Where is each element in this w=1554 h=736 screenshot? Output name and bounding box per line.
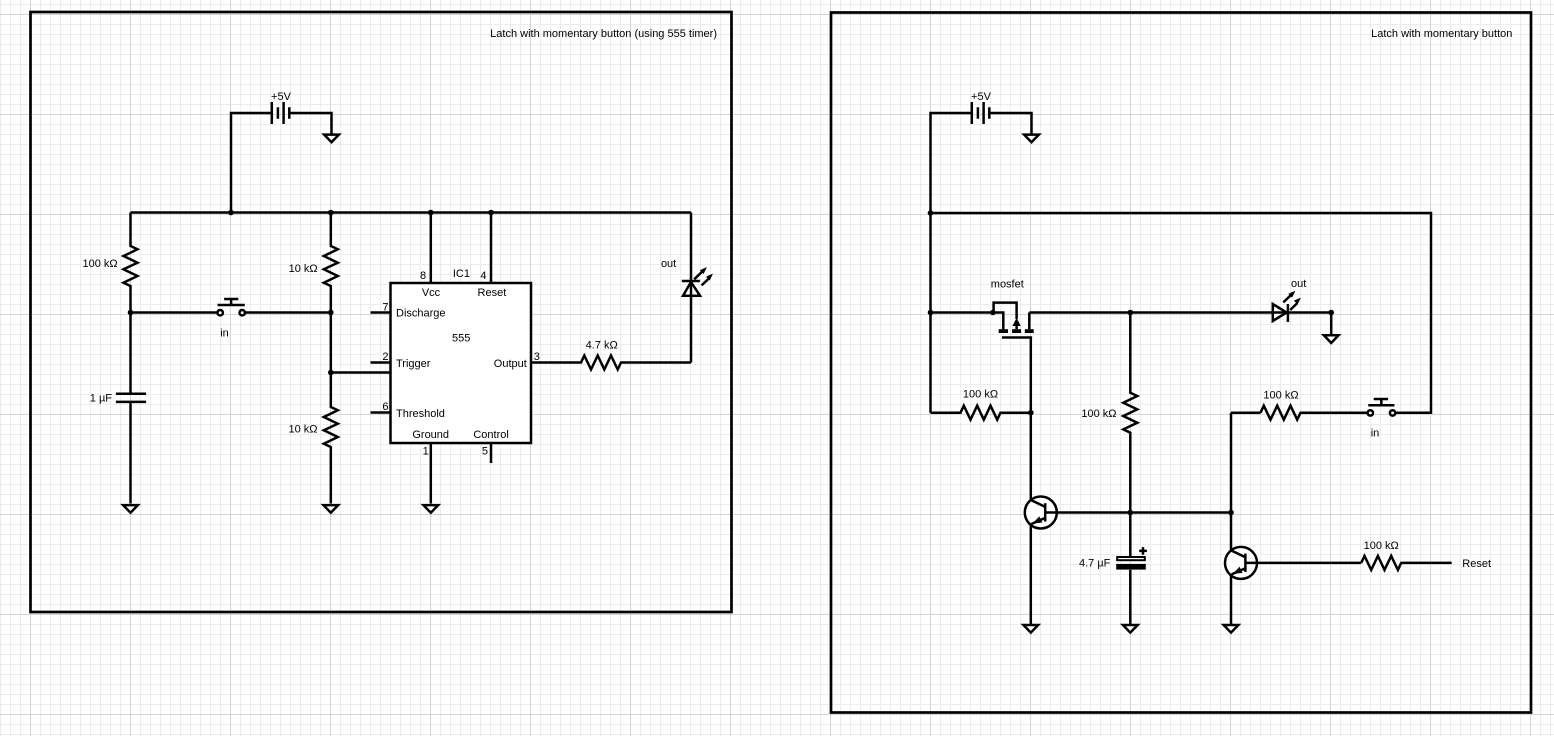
node mosfet gate hook — [990, 310, 996, 316]
svg-text:+5V: +5V — [971, 91, 992, 103]
wire Q1 base row — [1045, 511, 1231, 514]
wire button right — [245, 311, 330, 314]
svg-text:mosfet: mosfet — [991, 279, 1024, 291]
svg-text:Control: Control — [473, 429, 508, 441]
svg-text:Latch with momentary button: Latch with momentary button — [1371, 28, 1512, 40]
pin 4 wire (Reset) — [480, 213, 491, 284]
wire mosfet drain to LED row — [1029, 311, 1273, 314]
IC IC1 (555 timer) — [391, 268, 532, 443]
battery V2 +5V — [971, 91, 992, 124]
LED D1 "out" — [661, 213, 713, 363]
svg-text:in: in — [1371, 427, 1380, 439]
node R1-button — [128, 310, 134, 316]
node rail-pin8 — [428, 210, 434, 216]
ground (C1) — [123, 505, 138, 513]
resistor R8 100 kOhm (reset) — [1361, 540, 1452, 570]
resistor R2 10 kOhm — [289, 213, 338, 313]
svg-text:4.7 µF: 4.7 µF — [1079, 557, 1111, 569]
svg-text:10 kΩ: 10 kΩ — [288, 424, 317, 436]
node rail-pin4 — [488, 210, 494, 216]
pin 7 stub (Discharge) — [371, 301, 391, 313]
wire battery left — [231, 113, 272, 213]
svg-text:100 kΩ: 100 kΩ — [1364, 540, 1399, 552]
node base row - C2 — [1128, 510, 1134, 516]
net label Reset — [1462, 558, 1491, 570]
node button-R2 — [328, 310, 334, 316]
svg-text:4: 4 — [480, 270, 486, 282]
pin 3 stub (Output) — [534, 351, 540, 363]
svg-text:Vcc: Vcc — [422, 287, 441, 299]
pin 6 stub (Threshold) — [371, 401, 391, 413]
svg-text:+5V: +5V — [271, 91, 292, 103]
svg-text:8: 8 — [420, 270, 426, 282]
ground (LED D2) — [1324, 335, 1339, 343]
node bus-mosfet row — [928, 310, 934, 316]
svg-text:7: 7 — [382, 301, 388, 313]
transistor Q2 — [1225, 547, 1257, 579]
node rail-battery V2 — [928, 210, 934, 216]
battery V1 +5V — [271, 91, 292, 124]
svg-text:Trigger: Trigger — [396, 358, 431, 370]
node trigger — [328, 370, 334, 376]
pushbutton S1 "in" — [218, 299, 245, 339]
LED D2 "out" — [1273, 278, 1331, 334]
right title — [1371, 28, 1512, 40]
wire R2 to trigger node — [330, 313, 333, 373]
svg-text:1: 1 — [423, 446, 429, 458]
svg-text:5: 5 — [482, 446, 488, 458]
wire trigger to IC — [331, 371, 391, 374]
svg-text:Discharge: Discharge — [396, 308, 446, 320]
svg-text:100 kΩ: 100 kΩ — [963, 389, 998, 401]
ground (battery V2) — [1024, 135, 1039, 143]
svg-text:Reset: Reset — [478, 287, 507, 299]
node rail-R2 — [328, 210, 334, 216]
wire Q2 base row — [1245, 562, 1361, 565]
svg-text:10 kΩ: 10 kΩ — [289, 263, 318, 275]
svg-text:out: out — [661, 258, 676, 270]
resistor R1 100 kOhm — [82, 213, 137, 313]
svg-text:in: in — [220, 327, 229, 339]
ground (Q2) — [1224, 625, 1239, 633]
wire battery V2 right — [989, 113, 1031, 134]
wire left bus down — [929, 213, 932, 413]
resistor R4 4.7 kOhm — [531, 340, 691, 370]
svg-text:Latch with momentary button (u: Latch with momentary button (using 555 t… — [490, 28, 717, 40]
wire to mosfet source — [931, 313, 1004, 330]
svg-text:Output: Output — [494, 358, 527, 370]
capacitor C1 1 uF — [90, 313, 146, 504]
wire top rail — [131, 211, 692, 214]
pin 8 wire (Vcc) — [420, 213, 431, 284]
transistor Q1 — [1025, 497, 1057, 529]
ground (IC1 pin1) — [423, 505, 438, 513]
resistor R5 100 kOhm — [931, 389, 1031, 420]
pin 2 stub (Trigger) — [371, 351, 391, 363]
pin 1 wire (Ground) — [423, 443, 431, 504]
node LED row - R6 — [1128, 310, 1134, 316]
resistor R6 100 kOhm (middle) — [1081, 313, 1137, 513]
svg-text:2: 2 — [382, 351, 388, 363]
ground (R3) — [323, 505, 338, 513]
wire battery V2 left — [931, 113, 972, 213]
svg-text:100 kΩ: 100 kΩ — [1081, 408, 1116, 420]
svg-text:100 kΩ: 100 kΩ — [1263, 389, 1298, 401]
resistor R3 10 kOhm — [288, 373, 337, 504]
resistor R7 100 kOhm (in) — [1261, 389, 1368, 419]
pin 5 stub (Control) — [482, 443, 491, 463]
node gate-R5 — [1028, 410, 1034, 416]
wire in-row left corner — [1231, 411, 1261, 414]
svg-text:4.7 kΩ: 4.7 kΩ — [586, 340, 618, 352]
svg-text:Threshold: Threshold — [396, 408, 445, 420]
ground (battery V1) — [324, 135, 339, 143]
node Q1 base - Q2 collector — [1228, 510, 1234, 516]
svg-text:Ground: Ground — [412, 429, 449, 441]
ground (Q1) — [1023, 625, 1038, 633]
wire right rail — [931, 213, 1432, 413]
wire battery right — [289, 113, 331, 134]
svg-text:Reset: Reset — [1462, 558, 1491, 570]
svg-text:IC1: IC1 — [453, 268, 470, 280]
svg-text:555: 555 — [452, 333, 470, 345]
right schematic frame — [831, 13, 1531, 713]
svg-text:out: out — [1291, 278, 1306, 290]
left schematic frame — [31, 12, 732, 612]
pushbutton S2 "in" — [1368, 399, 1396, 439]
node LED-ground — [1328, 310, 1334, 316]
capacitor C2 4.7 uF — [1079, 513, 1147, 626]
ground (C2) — [1123, 625, 1138, 633]
wire Q1 emitter to ground — [1030, 525, 1033, 625]
node rail-battery — [228, 210, 234, 216]
svg-text:6: 6 — [382, 401, 388, 413]
wire Q2 collector bus — [1230, 413, 1233, 626]
wire button left — [131, 311, 218, 314]
wire mosfet gate down — [1030, 338, 1033, 501]
svg-text:100 kΩ: 100 kΩ — [82, 258, 117, 270]
mosfet M1 — [991, 279, 1034, 338]
svg-text:1 µF: 1 µF — [90, 393, 113, 405]
left title — [490, 28, 717, 40]
